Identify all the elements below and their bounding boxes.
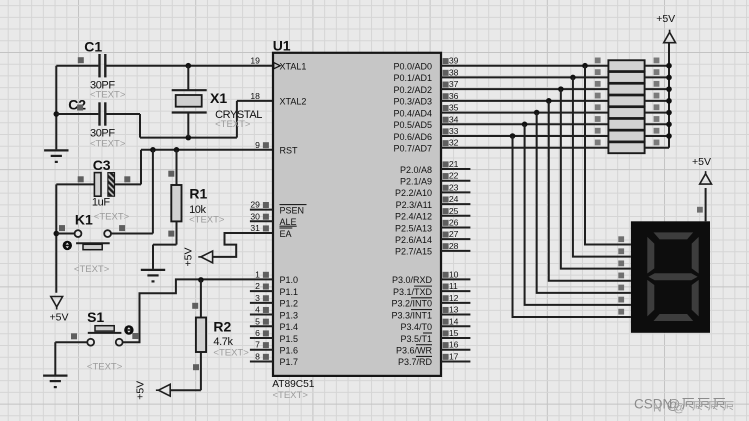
svg-text:C3: C3 (93, 157, 111, 173)
svg-text:P1.2: P1.2 (280, 299, 299, 309)
svg-text:18: 18 (250, 91, 260, 101)
svg-text:23: 23 (449, 182, 459, 192)
svg-text:<TEXT>: <TEXT> (87, 361, 123, 372)
svg-text:S1: S1 (87, 309, 104, 325)
svg-text:2: 2 (255, 281, 260, 291)
svg-text:P2.5/A13: P2.5/A13 (395, 223, 432, 233)
svg-text:29: 29 (250, 200, 260, 210)
svg-text:6: 6 (255, 328, 260, 338)
svg-text:RST: RST (280, 146, 299, 156)
svg-text:P3.4/T0: P3.4/T0 (400, 322, 432, 332)
svg-text:30: 30 (250, 211, 260, 221)
svg-text:<TEXT>: <TEXT> (215, 119, 251, 130)
svg-text:8: 8 (255, 351, 260, 361)
svg-text:<TEXT>: <TEXT> (213, 347, 249, 358)
svg-text:R2: R2 (213, 318, 231, 334)
svg-text:C1: C1 (84, 39, 102, 55)
svg-text:AT89C51: AT89C51 (272, 379, 315, 390)
svg-text:P0.4/AD4: P0.4/AD4 (393, 108, 432, 118)
svg-text:4.7k: 4.7k (213, 336, 233, 348)
svg-text:P1.1: P1.1 (280, 287, 299, 297)
svg-text:P3.5/T1: P3.5/T1 (400, 334, 432, 344)
svg-text:P1.0: P1.0 (280, 275, 299, 285)
svg-text:+5V: +5V (182, 248, 194, 267)
svg-text:P1.7: P1.7 (280, 357, 299, 367)
svg-text:P3.6/WR: P3.6/WR (396, 346, 433, 356)
svg-text:37: 37 (449, 79, 459, 89)
svg-text:P2.0/A8: P2.0/A8 (400, 165, 432, 175)
svg-text:P2.1/A9: P2.1/A9 (400, 176, 432, 186)
svg-text:P0.7/AD7: P0.7/AD7 (393, 144, 432, 154)
svg-text:14: 14 (449, 316, 459, 326)
svg-text:34: 34 (449, 114, 459, 124)
svg-text:P1.4: P1.4 (280, 322, 299, 332)
svg-text:+5V: +5V (692, 156, 711, 168)
svg-text:10: 10 (449, 269, 459, 279)
svg-text:N: N (653, 400, 662, 414)
svg-text:P3.0/RXD: P3.0/RXD (392, 275, 433, 285)
svg-text:22: 22 (449, 171, 459, 181)
svg-text:1: 1 (255, 269, 260, 279)
svg-text:13: 13 (449, 305, 459, 315)
svg-text:P2.7/A15: P2.7/A15 (395, 247, 432, 257)
svg-text:U1: U1 (273, 38, 291, 54)
svg-text:<TEXT>: <TEXT> (94, 211, 130, 222)
svg-text:P0.6/AD6: P0.6/AD6 (393, 132, 432, 142)
svg-text:K1: K1 (75, 211, 93, 227)
svg-text:32: 32 (449, 138, 459, 148)
svg-text:P0.1/AD1: P0.1/AD1 (393, 73, 432, 83)
svg-text:17: 17 (449, 351, 459, 361)
svg-text:+5V: +5V (134, 381, 146, 400)
svg-text:+5V: +5V (50, 311, 69, 323)
svg-text:P1.5: P1.5 (280, 334, 299, 344)
svg-text:P2.3/A11: P2.3/A11 (396, 200, 432, 210)
svg-text:36: 36 (449, 91, 459, 101)
svg-text:<TEXT>: <TEXT> (90, 90, 126, 101)
svg-text:EA: EA (280, 229, 292, 239)
svg-text:35: 35 (449, 103, 459, 113)
svg-text:27: 27 (449, 229, 459, 239)
svg-text:P3.1/TXD: P3.1/TXD (393, 287, 433, 297)
svg-text:<TEXT>: <TEXT> (90, 138, 126, 149)
svg-text:4: 4 (255, 305, 260, 315)
svg-text:31: 31 (250, 223, 260, 233)
svg-text:16: 16 (449, 340, 459, 350)
svg-text:P3.7/RD: P3.7/RD (398, 357, 433, 367)
svg-text:19: 19 (250, 56, 260, 66)
svg-text:25: 25 (449, 206, 459, 216)
svg-text:X1: X1 (210, 90, 227, 106)
svg-text:R1: R1 (189, 185, 207, 201)
svg-text:ALE: ALE (280, 217, 297, 227)
svg-text:21: 21 (449, 159, 459, 169)
svg-text:1uF: 1uF (92, 197, 110, 209)
svg-text:P2.4/A12: P2.4/A12 (395, 212, 432, 222)
svg-text:24: 24 (449, 194, 459, 204)
svg-text:5: 5 (255, 316, 260, 326)
svg-text:P1.6: P1.6 (280, 346, 299, 356)
svg-text:9: 9 (255, 140, 260, 150)
svg-text:7: 7 (255, 340, 260, 350)
svg-text:XTAL2: XTAL2 (280, 97, 307, 107)
svg-text:33: 33 (449, 126, 459, 136)
svg-text:15: 15 (449, 328, 459, 338)
svg-text:P2.6/A14: P2.6/A14 (395, 235, 432, 245)
svg-text:P0.5/AD5: P0.5/AD5 (393, 120, 432, 130)
svg-text:P1.3: P1.3 (280, 310, 299, 320)
svg-text:11: 11 (449, 281, 458, 291)
svg-text:PSEN: PSEN (280, 205, 305, 215)
svg-text:XTAL1: XTAL1 (280, 62, 307, 72)
svg-text:28: 28 (449, 241, 459, 251)
svg-text:P0.2/AD2: P0.2/AD2 (393, 85, 432, 95)
svg-text:<TEXT>: <TEXT> (74, 264, 110, 275)
svg-text:P3.2/INT0: P3.2/INT0 (391, 299, 432, 309)
svg-text:P3.3/INT1: P3.3/INT1 (391, 310, 432, 320)
svg-text:<TEXT>: <TEXT> (273, 390, 309, 401)
svg-text:P0.3/AD3: P0.3/AD3 (393, 97, 432, 107)
svg-text:26: 26 (449, 217, 459, 227)
svg-text:39: 39 (449, 56, 459, 66)
svg-text:38: 38 (449, 67, 459, 77)
svg-text:P2.2/A10: P2.2/A10 (395, 188, 432, 198)
svg-text:12: 12 (449, 293, 459, 303)
svg-text:P0.0/AD0: P0.0/AD0 (393, 62, 432, 72)
svg-text:<TEXT>: <TEXT> (189, 214, 225, 225)
svg-text:+5V: +5V (656, 13, 675, 25)
svg-text:3: 3 (255, 293, 260, 303)
